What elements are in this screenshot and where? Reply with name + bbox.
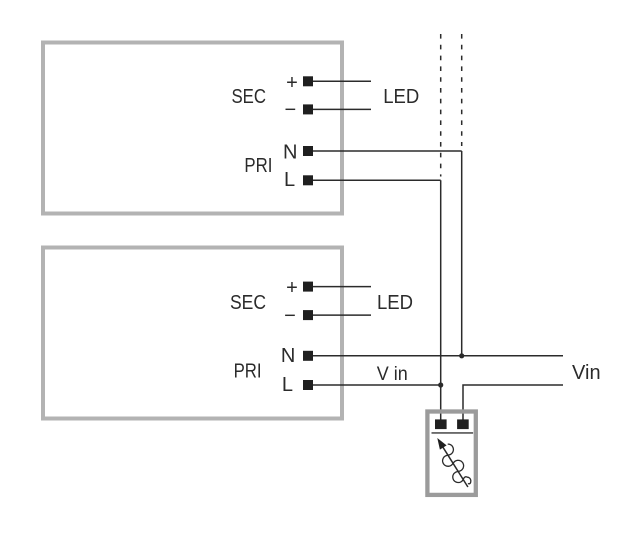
wire dimmer right terminal up and right to Vin	[463, 385, 563, 420]
junction node on L line	[438, 382, 443, 387]
svg-text:−: −	[284, 305, 296, 327]
terminal N (driver 2)	[303, 351, 313, 361]
terminal - (driver 2)	[303, 310, 313, 320]
dimmer arrow shaft	[442, 446, 468, 487]
svg-text:+: +	[286, 277, 298, 299]
svg-text:−: −	[284, 99, 296, 121]
dimmer terminal left	[435, 419, 447, 429]
wire - stub to LED (driver 1)	[313, 108, 371, 110]
dimmer coil (phase-cut symbol)	[443, 444, 471, 484]
svg-text:SEC: SEC	[231, 86, 266, 108]
dimmer separator line	[432, 432, 474, 434]
svg-text:SEC: SEC	[230, 292, 266, 314]
wire node to dimmer left terminal	[440, 385, 442, 420]
svg-text:PRI: PRI	[234, 361, 262, 383]
wire N vertical down to node (driver 1)	[461, 151, 463, 356]
terminal N (driver 1)	[303, 146, 313, 156]
terminal + (driver 2)	[303, 282, 313, 292]
terminal L (driver 2)	[303, 380, 313, 390]
wire L vertical down to node (driver 1)	[440, 180, 442, 385]
wire L horizontal (driver 1)	[313, 179, 441, 181]
svg-text:N: N	[283, 142, 297, 164]
junction node on N line	[459, 353, 464, 358]
dashed mains lead L (to supply above)	[440, 34, 442, 177]
wire + stub to LED (driver 2)	[313, 286, 371, 288]
svg-text:N: N	[281, 345, 295, 367]
dimmer box (enclosure outline)	[427, 412, 475, 495]
svg-text:LED: LED	[377, 292, 413, 314]
dimmer arrowhead	[437, 438, 446, 450]
svg-text:V in: V in	[377, 364, 408, 385]
wire N horizontal (driver 1)	[313, 150, 462, 152]
svg-text:+: +	[286, 72, 298, 94]
wire + stub to LED (driver 1)	[313, 80, 371, 82]
svg-text:L: L	[284, 169, 295, 191]
LED driver box 1 (enclosure outline)	[43, 43, 342, 214]
wire N horizontal to Vin (driver 2)	[313, 355, 563, 357]
svg-text:L: L	[282, 374, 293, 396]
terminal L (driver 1)	[303, 175, 313, 185]
wire - stub to LED (driver 2)	[313, 314, 371, 316]
svg-text:Vin: Vin	[572, 362, 601, 384]
terminal + (driver 1)	[303, 76, 313, 86]
svg-text:PRI: PRI	[244, 155, 272, 177]
LED driver box 2 (enclosure outline)	[43, 248, 342, 419]
svg-text:LED: LED	[383, 86, 419, 108]
dashed mains lead N (to supply above)	[461, 34, 463, 146]
dimmer terminal right	[457, 419, 469, 429]
wire L horizontal to node (driver 2)	[313, 384, 441, 386]
terminal - (driver 1)	[303, 104, 313, 114]
